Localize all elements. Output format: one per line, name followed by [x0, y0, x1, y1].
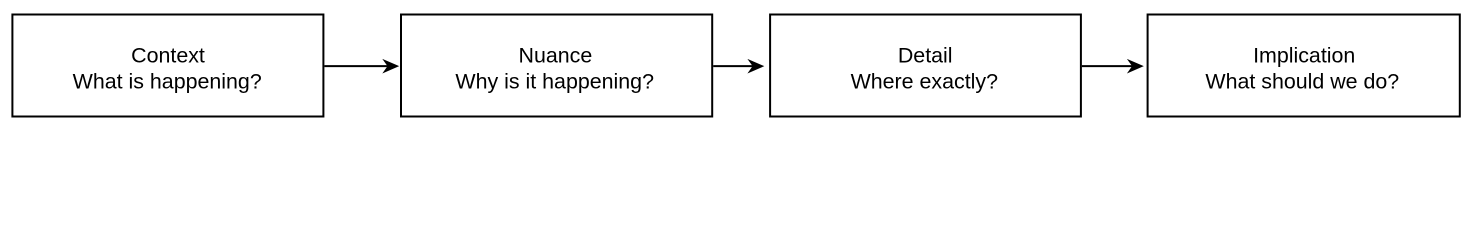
svg-text:Detail: Detail [898, 43, 953, 67]
svg-text:Why is it happening?: Why is it happening? [455, 69, 654, 93]
box Implication [1148, 15, 1460, 117]
arrow Detail to Implication [1082, 59, 1144, 74]
box Nuance [401, 15, 712, 117]
box Context [12, 15, 323, 117]
svg-text:Nuance: Nuance [519, 43, 593, 67]
svg-text:What is happening?: What is happening? [73, 69, 262, 93]
svg-text:Where exactly?: Where exactly? [851, 69, 999, 93]
svg-text:Implication: Implication [1253, 43, 1355, 67]
svg-text:What should we do?: What should we do? [1205, 69, 1399, 93]
arrow Context to Nuance [324, 59, 399, 74]
box Detail [770, 15, 1081, 117]
svg-text:Context: Context [131, 43, 205, 67]
arrow Nuance to Detail [713, 59, 764, 74]
